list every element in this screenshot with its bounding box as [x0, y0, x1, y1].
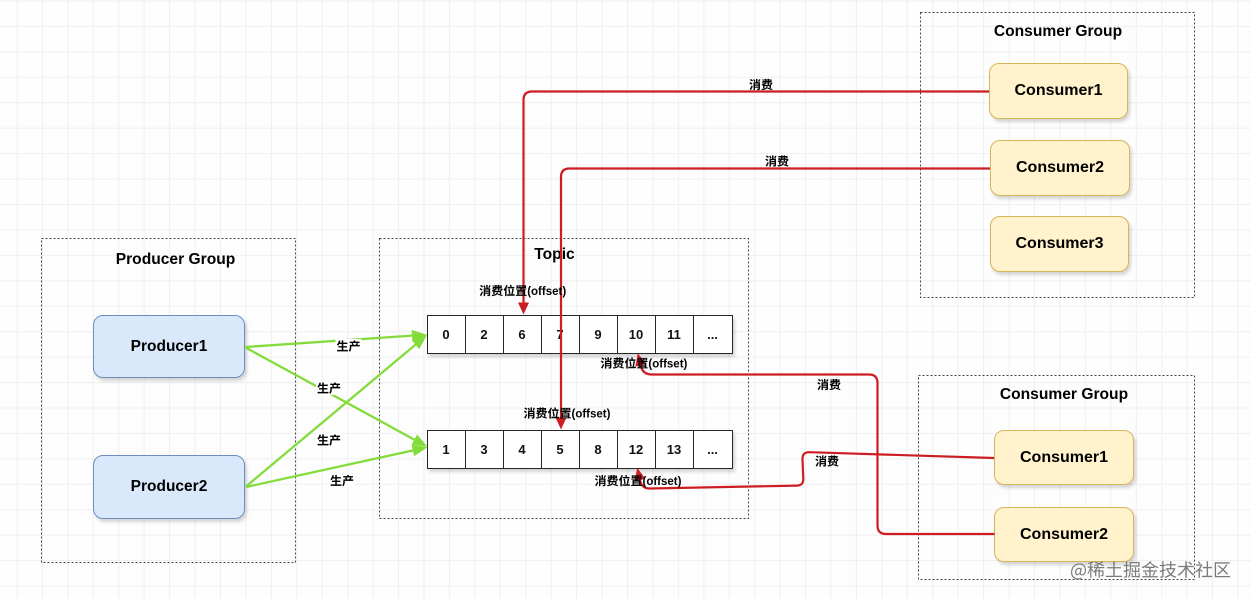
svg-text:(offset): (offset) — [572, 409, 611, 421]
label 生产 (produce) on Producer2->row1 line — [316, 433, 342, 447]
group title: Consumer Group (top) — [921, 23, 1195, 41]
label 消费位置(offset) above partition row 2 — [524, 407, 535, 418]
group title: Producer Group — [48, 251, 303, 269]
label 生产 (produce) on Producer2->row2 line — [329, 474, 355, 488]
label 生产 (produce) on Producer1->row2 line — [316, 381, 342, 395]
wire: Producer2 -> partition row 2 (green) — [246, 450, 415, 487]
label 消费位置(offset) below partition row 1 — [601, 357, 612, 368]
Topic dashed container — [380, 239, 749, 519]
svg-text:(offset): (offset) — [527, 286, 566, 298]
label 消费位置(offset) above partition row 1 — [480, 285, 491, 296]
partition row 1 cells — [427, 315, 733, 354]
label 生产 (produce) on Producer1->row1 line — [336, 339, 362, 353]
watermark @稀土掘金技术社区 — [1071, 563, 1086, 579]
wire: Producer1 -> partition row 2 (green) — [246, 348, 417, 441]
wire: Consumer2 (bottom group) -> cell 10 of partition row 1 (red) — [641, 366, 995, 535]
node Producer2 — [93, 455, 245, 519]
node Consumer3 (top group) — [990, 216, 1129, 272]
label 消费位置(offset) below partition row 2 — [595, 475, 606, 486]
node Consumer1 (bottom group) — [994, 430, 1134, 485]
Consumer Group (top) dashed container — [921, 13, 1195, 298]
wire: Producer2 -> partition row 1 (green) — [246, 343, 418, 487]
label 消费 (consume) on Consumer2-bottom line — [817, 379, 828, 390]
label 消费 (consume) on Consumer1-top line — [749, 79, 760, 90]
wire: Producer1 -> partition row 1 (green) — [246, 335, 416, 347]
wire: Consumer1 (bottom group) -> cell 12 of partition row 2 (red) — [640, 452, 994, 488]
node Consumer2 (bottom group) — [994, 507, 1134, 562]
wire: Consumer2 (top group) -> cell 5 of partition row 2 (red) — [561, 169, 990, 419]
svg-text:(offset): (offset) — [643, 476, 682, 488]
wire: Consumer1 (top group) -> cell 6 of partition row 1 (red) — [524, 92, 990, 304]
group title: Consumer Group (bottom) — [926, 386, 1202, 404]
node Consumer2 (top group) — [990, 140, 1130, 196]
svg-text:(offset): (offset) — [648, 359, 687, 371]
group title: Topic — [370, 246, 739, 264]
Producer Group dashed container — [42, 239, 296, 563]
label 消费 (consume) on Consumer1-bottom line — [815, 455, 826, 466]
partition row 2 cells — [427, 430, 733, 470]
Consumer Group (bottom) dashed container — [919, 376, 1195, 580]
node Producer1 — [93, 315, 245, 378]
node Consumer1 (top group) — [989, 63, 1128, 119]
label 消费 (consume) on Consumer2-top line — [765, 155, 776, 166]
